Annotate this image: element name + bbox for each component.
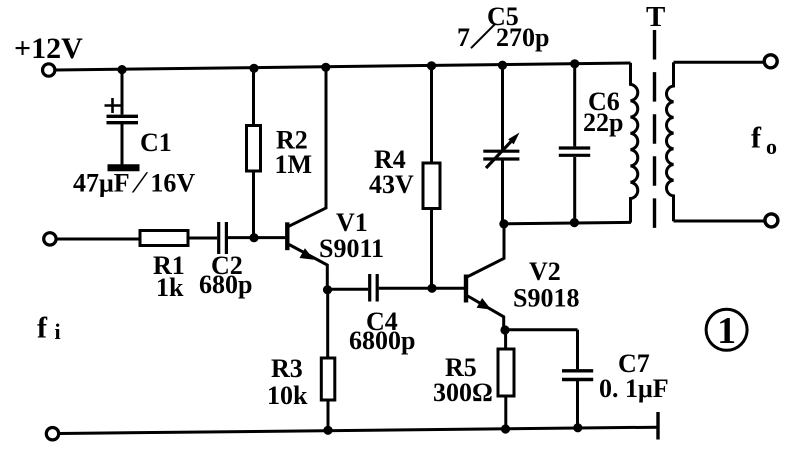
resistor R3 lead bottom [327,400,330,430]
transistor V2 base bar [464,275,468,303]
wire emitter node to C4 [328,288,369,291]
wire C4 to V2 base [379,287,465,290]
svg-text:6800p: 6800p [349,326,415,355]
svg-text:7／270p: 7／270p [457,23,549,52]
capacitor C5 lead bottom [501,161,504,223]
terminal fo top [764,55,777,68]
resistor R3 lead top [326,290,329,358]
svg-text:10k: 10k [267,381,308,410]
svg-text:S9018: S9018 [513,284,579,313]
node C1 top junction [117,65,126,74]
node V1 collector junction [321,63,330,72]
capacitor C5 variable arrow [486,141,512,169]
svg-text:0. 1μF: 0. 1μF [599,374,669,403]
svg-text:C1: C1 [140,128,172,157]
resistor R2 lead bottom [252,171,255,238]
wire collector node line [504,222,631,223]
capacitor C7 lead bottom [576,381,579,428]
capacitor C1 lead top [121,70,124,115]
capacitor C4 plate left [368,274,371,302]
capacitor C1 end bar [108,164,140,171]
node C7 bottom junction [573,423,582,432]
terminal ground left [46,428,58,440]
transistor V1 emitter arrow [300,248,315,259]
node R3 bottom junction [323,426,332,435]
svg-text:47μF ∕ 16V: 47μF ∕ 16V [73,165,195,200]
terminal fi input [44,233,56,245]
svg-text:f: f [37,312,48,345]
node C6 top junction [570,59,579,68]
svg-text:1k: 1k [156,273,184,302]
wire secondary bottom to fo [674,220,765,223]
capacitor C6 lead top [573,64,576,147]
svg-text:1: 1 [717,310,736,352]
resistor R2 lead top [252,68,255,125]
resistor R5 body [498,349,514,396]
wire secondary top to fo [674,61,764,64]
node C5 top junction [498,61,507,70]
resistor R2 body [247,126,261,172]
svg-text:i: i [55,319,61,344]
transformer T core [653,30,656,228]
svg-text:T: T [646,1,665,33]
capacitor C5 plate bottom [483,157,519,160]
capacitor C1 plate bottom [107,121,139,124]
transistor V1 emitter [289,245,327,291]
wire R1 to C2 [188,237,217,240]
transistor V2 collector [468,224,504,277]
capacitor C6 lead bottom [573,157,576,223]
capacitor C5 plate top [483,150,519,153]
node R4 top junction [427,61,436,70]
resistor R4 lead bottom [430,209,433,289]
capacitor C1 plus sign [105,98,121,113]
capacitor C4 plate right [376,274,379,302]
node R5 bottom junction [501,424,510,433]
resistor R4 body [423,163,440,209]
transistor V2 emitter [468,296,504,330]
svg-text:R3: R3 [271,354,303,383]
resistor R3 body [321,358,335,400]
svg-text:43V: 43V [369,170,414,199]
node R2 top junction [249,64,258,73]
transformer T secondary winding [666,62,673,221]
transistor V1 collector [289,67,326,226]
svg-text:V1: V1 [336,208,368,237]
node R2 base junction [249,233,258,242]
transistor V1 base bar [285,222,289,250]
wire input to R1 [57,238,140,241]
terminal +12V input [43,64,55,76]
svg-text:300Ω: 300Ω [433,378,493,407]
node R4 bottom junction [427,284,436,293]
terminal fo bottom [765,214,778,227]
svg-text:o: o [766,134,777,159]
node V2 collector junction [499,219,508,228]
capacitor C1 plate top [107,115,139,118]
wire top supply rail [56,63,631,70]
wire bottom ground rail [60,427,659,433]
capacitor C7 plate top [562,369,593,372]
wire C2 to V1 base [228,236,285,239]
transistor V2 emitter arrow [477,298,492,310]
resistor R1 body [140,231,188,246]
node V1 emitter / C4 / R3 junction [323,285,332,294]
svg-text:f: f [751,122,762,155]
node C6 bottom junction [570,218,579,227]
wire emitter node to C7 [505,328,578,331]
ground rail end bar [656,412,659,440]
capacitor C6 plate top [559,146,590,149]
capacitor C1 lead bottom [121,124,124,165]
capacitor C7 plate bottom [562,378,593,381]
resistor R5 lead bottom [504,396,507,429]
capacitor C5 lead top [501,65,504,149]
svg-text:S9011: S9011 [319,234,384,263]
svg-text:+12V: +12V [14,32,83,65]
capacitor C2 plate left [217,222,220,254]
svg-text:V2: V2 [529,257,561,286]
resistor R4 lead top [430,66,433,163]
svg-text:680p: 680p [199,270,252,299]
capacitor C6 plate bottom [559,154,590,157]
svg-text:22p: 22p [583,108,623,137]
capacitor C2 plate right [225,222,228,254]
capacitor C7 lead top [576,330,579,370]
transformer T primary winding [631,63,638,223]
svg-text:1M: 1M [275,150,313,179]
node V2 emitter junction [500,325,509,334]
figure number circled 1 [706,309,747,352]
resistor R5 lead top [504,330,507,349]
